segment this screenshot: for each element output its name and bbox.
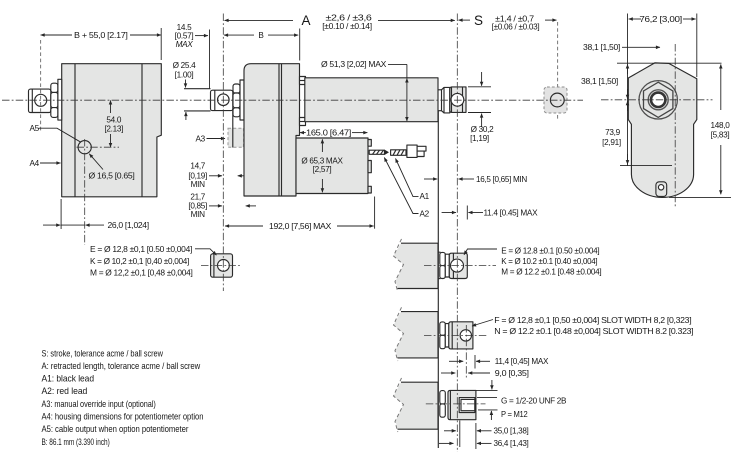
housing panel line 1 xyxy=(74,64,76,197)
G arrow down xyxy=(491,380,493,389)
dim 35,0 row xyxy=(444,430,456,432)
leader to eye xyxy=(195,249,216,255)
eye inner line xyxy=(452,253,454,278)
connector pin bottom xyxy=(417,151,424,156)
eye block inner edge xyxy=(213,254,215,277)
svg-text:G = 1/2-20 UNF 2B: G = 1/2-20 UNF 2B xyxy=(501,396,567,405)
svg-text:N = Ø 12.2 ±0.1 [0.48 ±0,004]: N = Ø 12.2 ±0.1 [0.48 ±0,004] SLOT WIDTH… xyxy=(494,327,693,336)
thread hole outer xyxy=(459,398,475,413)
break line zigzag xyxy=(394,307,404,361)
horizontal centerline bottom-left eye xyxy=(201,264,242,266)
dim 26,0 xyxy=(43,224,60,226)
motor tab middle xyxy=(368,161,371,173)
rear hex nut lobes xyxy=(233,84,240,93)
G extension line xyxy=(476,389,498,391)
thread boss ring xyxy=(648,90,668,110)
A4 arrow xyxy=(40,162,61,164)
bottom bolt on front plate xyxy=(300,118,306,126)
rear rod bottom edge xyxy=(184,110,211,112)
svg-text:11.4 [0.45] MAX: 11.4 [0.45] MAX xyxy=(484,208,539,217)
variant 1 centerline xyxy=(424,265,496,267)
A3 arrow xyxy=(207,138,226,140)
svg-text:A5: A5 xyxy=(30,124,40,133)
vertical centerline through front eye / stroke reference xyxy=(456,14,458,453)
dia 25.4 arrow up (to rod bottom) xyxy=(185,112,187,120)
svg-text:Ø 30,2: Ø 30,2 xyxy=(471,125,495,134)
thread hole inner xyxy=(461,399,475,410)
nut lobes xyxy=(440,322,446,335)
nut lobes xyxy=(440,252,446,265)
clevis pin hole xyxy=(460,330,471,341)
boss circle xyxy=(639,81,677,119)
washer xyxy=(445,254,449,277)
boss inner line xyxy=(449,390,451,419)
A3 manual override dashed port xyxy=(228,128,244,147)
rear rod top edge xyxy=(184,88,211,90)
svg-text:Ø 51,3 [2,02] MAX: Ø 51,3 [2,02] MAX xyxy=(321,60,387,69)
eye hole xyxy=(35,94,47,106)
dim 36,4 row xyxy=(439,442,454,444)
svg-text:[1,19]: [1,19] xyxy=(470,134,489,143)
svg-text:K = Ø 10,2 ±0,1 [0,40 ±0,004]: K = Ø 10,2 ±0,1 [0,40 ±0,004] xyxy=(90,257,189,266)
variant 2 centerline xyxy=(424,335,487,337)
long vertical reference line xyxy=(437,111,439,448)
dim S line xyxy=(459,19,471,21)
motor tab bottom xyxy=(368,186,371,193)
broken tube xyxy=(394,382,439,429)
washer xyxy=(445,324,449,347)
eye hole xyxy=(218,260,230,272)
14.5 extension line xyxy=(209,30,211,89)
housing body A4 xyxy=(62,64,162,197)
vertical centerline through A5 circle xyxy=(84,139,86,245)
variant 3 centerline xyxy=(426,403,486,405)
rear eye inner edge xyxy=(214,90,216,110)
clevis body xyxy=(449,322,473,349)
dim 11.4 MAX upper xyxy=(442,212,456,214)
hex nut lobes xyxy=(51,83,58,92)
svg-text:[±0.06 / ±0.03]: [±0.06 / ±0.03] xyxy=(492,22,540,31)
svg-text:S: S xyxy=(474,13,483,28)
clevis inner line xyxy=(451,322,453,349)
rear eye block (left view) xyxy=(29,89,51,112)
dim dia 30,2 extension lines xyxy=(468,86,491,88)
rod xyxy=(438,251,441,253)
vertical centerline through rear eye xyxy=(222,14,224,292)
svg-text:MAX: MAX xyxy=(176,40,194,49)
front eye inner lines xyxy=(451,87,453,113)
hex nut xyxy=(644,82,673,117)
front eye block xyxy=(450,87,466,113)
svg-text:P = M12: P = M12 xyxy=(501,410,528,419)
threaded boss xyxy=(448,390,476,419)
G leader xyxy=(477,397,497,399)
svg-text:[±0.10 / ±0.14]: [±0.10 / ±0.14] xyxy=(322,22,372,31)
svg-text:A1: A1 xyxy=(420,192,430,201)
horizontal centerline through A5 circle xyxy=(77,146,120,148)
svg-text:[1.00]: [1.00] xyxy=(175,71,194,80)
extension line right xyxy=(696,14,698,78)
14.5 arrow xyxy=(195,35,208,37)
svg-text:11,4 [0,45] MAX: 11,4 [0,45] MAX xyxy=(495,357,549,366)
rear eye block xyxy=(211,90,233,110)
A5 cable output circle xyxy=(78,141,91,154)
cable gland tab xyxy=(656,182,667,197)
svg-text:A3: manual override input (opt: A3: manual override input (optional) xyxy=(42,399,156,409)
svg-text:[5,83]: [5,83] xyxy=(711,130,730,139)
centerline through eye (vertical dashed) xyxy=(40,40,42,131)
leader xyxy=(464,249,497,255)
dim dia 65,3 vertical arrows xyxy=(321,139,323,152)
svg-text:165.0 [6.47]: 165.0 [6.47] xyxy=(306,128,351,137)
svg-text:B: 86.1 mm (3.390 inch): B: 86.1 mm (3.390 inch) xyxy=(42,437,110,447)
rear washer xyxy=(240,80,244,120)
svg-text:A5: cable output when option p: A5: cable output when option potentiomet… xyxy=(42,424,189,434)
dim 165.0 xyxy=(300,132,306,134)
A2 leader xyxy=(384,158,418,214)
svg-text:MIN: MIN xyxy=(191,210,205,219)
motor tab top xyxy=(368,140,371,147)
svg-text:Ø 25.4: Ø 25.4 xyxy=(173,61,197,70)
svg-text:E = Ø 12.8 ±0.1 [0.50 ±0.004]: E = Ø 12.8 ±0.1 [0.50 ±0.004] xyxy=(501,246,599,255)
leader xyxy=(472,320,493,327)
svg-text:35,0 [1,38]: 35,0 [1,38] xyxy=(494,427,529,436)
gearbox housing xyxy=(244,64,300,196)
svg-text:A4: housing dimensions for pot: A4: housing dimensions for potentiometer… xyxy=(42,412,204,422)
eye hole xyxy=(451,259,464,272)
svg-text:14.5: 14.5 xyxy=(177,23,192,32)
dia 30,2 arrows xyxy=(481,72,483,86)
extension line boss face xyxy=(475,423,477,449)
front eye hole xyxy=(451,93,464,106)
wire lead 1 xyxy=(369,150,384,154)
dim 148,0 xyxy=(720,64,722,110)
eye block xyxy=(211,254,233,277)
eye block inner edge xyxy=(31,89,33,112)
dim 9,0 row xyxy=(441,372,455,374)
S end dashed line xyxy=(557,22,559,119)
dim 26,0 extension line xyxy=(60,199,62,229)
bottom extension line xyxy=(669,196,731,198)
svg-text:A3: A3 xyxy=(196,134,206,143)
svg-text:M = Ø 12,2 ±0,1 [0,48 ±0,004]: M = Ø 12,2 ±0,1 [0,48 ±0,004] xyxy=(90,268,193,277)
svg-text:38,1 [1,50]: 38,1 [1,50] xyxy=(581,77,618,86)
svg-text:26,0 [1,024]: 26,0 [1,024] xyxy=(108,221,149,230)
right view horizontal centerline xyxy=(601,99,713,101)
nut lobes xyxy=(440,391,446,404)
dim 192,0 xyxy=(225,225,263,227)
21,7 arrow left xyxy=(246,205,256,207)
dim A line xyxy=(225,19,294,21)
ghost eye block dashed xyxy=(544,87,567,113)
dim B line xyxy=(224,34,254,36)
svg-text:76,2 [3,00]: 76,2 [3,00] xyxy=(639,15,682,24)
extension line right of B+55 xyxy=(160,28,162,60)
top bolt on front plate xyxy=(300,77,306,85)
vertical centerline right view xyxy=(674,44,676,207)
break line zigzag xyxy=(394,239,404,292)
dim 192,0 extension line xyxy=(374,197,376,229)
A5 leader xyxy=(39,128,81,142)
svg-text:14,7: 14,7 xyxy=(190,162,205,171)
svg-text:21,7: 21,7 xyxy=(190,192,205,201)
svg-text:B: B xyxy=(258,31,264,40)
dim 54,0 arrows xyxy=(110,100,112,113)
main horizontal centerline xyxy=(2,99,583,101)
break line zigzag xyxy=(394,378,404,432)
A1 leader xyxy=(396,159,419,197)
svg-text:38,1 [1,50]: 38,1 [1,50] xyxy=(583,43,620,52)
reference line at mounting holes plane xyxy=(620,164,672,166)
broken tube xyxy=(394,312,439,358)
leader to vertical dim xyxy=(388,63,407,65)
front rod xyxy=(438,89,442,91)
washer flange xyxy=(58,79,62,120)
connector pin top xyxy=(417,146,426,151)
svg-text:A2: A2 xyxy=(420,210,430,219)
dim 76,2 xyxy=(629,18,641,20)
svg-text:36,4 [1,43]: 36,4 [1,43] xyxy=(494,439,529,448)
svg-text:148,0: 148,0 xyxy=(711,121,731,130)
connector plug body xyxy=(407,145,417,157)
extension line small xyxy=(459,421,461,448)
svg-text:A1: black lead: A1: black lead xyxy=(42,374,95,384)
rear eye hole xyxy=(218,94,230,106)
cable gland hole xyxy=(658,185,663,190)
front hex nut tapers xyxy=(442,87,450,113)
svg-text:A4: A4 xyxy=(30,159,40,168)
extension line left xyxy=(627,14,629,167)
ghost eye hole xyxy=(550,93,564,107)
svg-text:MIN: MIN xyxy=(191,180,205,189)
14,7 arrow left xyxy=(238,175,248,177)
dia 51,3 vertical line with arrows xyxy=(406,64,408,77)
body outline xyxy=(628,63,697,198)
21,7 arrow right xyxy=(209,205,222,207)
motor block xyxy=(296,138,368,194)
svg-text:A: A xyxy=(301,13,310,28)
housing panel line 2 xyxy=(141,64,143,197)
svg-text:F = Ø 12,8 ±0,1 [0,50 ±0,004]: F = Ø 12,8 ±0,1 [0,50 ±0,004] SLOT WIDTH… xyxy=(494,316,691,325)
cylinder tube xyxy=(305,78,438,122)
dim 11,4 MAX row xyxy=(449,360,463,362)
svg-text:M = Ø 12.2 ±0.1 [0.48 ±0.004]: M = Ø 12.2 ±0.1 [0.48 ±0.004] xyxy=(501,267,601,276)
gearbox panel double line xyxy=(278,64,280,196)
svg-text:[2,57]: [2,57] xyxy=(313,165,332,174)
dia 25.4 arrow down xyxy=(185,80,187,88)
svg-text:[2.13]: [2.13] xyxy=(104,124,123,133)
eye block xyxy=(449,253,467,278)
P arrow up xyxy=(490,411,492,420)
leader to A5 circle xyxy=(89,154,103,170)
svg-text:[2,91]: [2,91] xyxy=(602,138,621,147)
dim B+55,0 line xyxy=(41,34,161,36)
dim 16,5 MIN xyxy=(424,178,437,180)
P extension line xyxy=(478,409,498,411)
svg-text:192,0 [7,56] MAX: 192,0 [7,56] MAX xyxy=(269,222,332,231)
svg-text:S: stroke, tolerance acme / ba: S: stroke, tolerance acme / ball screw xyxy=(42,348,164,358)
svg-text:A2: red lead: A2: red lead xyxy=(42,386,88,396)
14,7 arrow right xyxy=(209,175,222,177)
svg-text:16,5 [0,65] MIN: 16,5 [0,65] MIN xyxy=(476,175,527,184)
svg-text:54.0: 54.0 xyxy=(106,115,121,124)
broken tube xyxy=(394,243,439,288)
svg-text:B + 55,0 [2.17]: B + 55,0 [2.17] xyxy=(74,31,128,40)
clevis pin centerline xyxy=(465,325,467,378)
svg-text:9,0 [0,35]: 9,0 [0,35] xyxy=(495,369,529,378)
body top extension line xyxy=(617,62,722,64)
svg-text:Ø 65,3 MAX: Ø 65,3 MAX xyxy=(301,156,343,165)
extension line at front plate xyxy=(299,29,301,61)
svg-text:73,9: 73,9 xyxy=(605,128,620,137)
thread hole xyxy=(651,93,665,107)
svg-text:A: retracted length, tolerance: A: retracted length, tolerance acme / ba… xyxy=(42,361,201,371)
svg-text:Ø 16,5 [0.65]: Ø 16,5 [0.65] xyxy=(89,171,135,180)
wire lead 2 sleeve xyxy=(391,150,406,156)
svg-text:E = Ø 12,8 ±0,1 [0.50 ±0,004]: E = Ø 12,8 ±0,1 [0.50 ±0,004] xyxy=(90,245,192,254)
svg-text:K = Ø 10.2 ±0.1 [0.40 ±0,004]: K = Ø 10.2 ±0.1 [0.40 ±0,004] xyxy=(501,257,597,266)
